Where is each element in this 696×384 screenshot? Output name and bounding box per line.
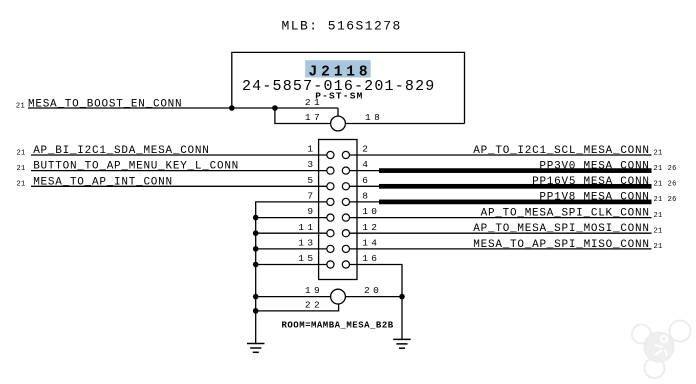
svg-text:21: 21 (654, 212, 663, 220)
svg-text:11: 11 (298, 222, 316, 233)
svg-text:8: 8 (362, 191, 371, 202)
wire AP_TO_I2C1_SCL_MESA_CONN pin 2 (350, 154, 652, 156)
svg-text:26: 26 (668, 181, 677, 189)
power bus PP3V0_MESA_CONN (thick) (379, 168, 652, 173)
pin 1 circle (327, 151, 334, 158)
junction bus pin 11 (253, 230, 259, 236)
svg-text:17: 17 (305, 112, 323, 123)
pin 5 circle (327, 183, 334, 190)
svg-text:16: 16 (362, 253, 380, 264)
wire right ground drop (401, 297, 403, 340)
svg-text:ROOM=MAMBA_MESA_B2B: ROOM=MAMBA_MESA_B2B (282, 321, 394, 331)
svg-text:14: 14 (362, 238, 380, 249)
svg-text:MLB: 516S1278: MLB: 516S1278 (282, 19, 402, 34)
wire MESA_TO_AP_SPI_MISO_CONN (350, 248, 652, 250)
pin 4 circle (342, 167, 349, 174)
wire branch down to pin 17 (275, 108, 331, 124)
wire pin 18 (345, 123, 464, 125)
wire pin 15 to bus (256, 264, 327, 266)
svg-text:22: 22 (305, 299, 323, 310)
svg-text:6: 6 (362, 175, 371, 186)
pin 2 circle (342, 151, 349, 158)
wire MESA_TO_BOOST_EN_CONN to pin 21 (28, 107, 338, 109)
junction bus pin 13 (253, 246, 259, 252)
power bus PP16V5_MESA_CONN (thick) (379, 184, 652, 189)
svg-text:13: 13 (298, 238, 316, 249)
svg-text:21: 21 (17, 149, 26, 157)
svg-text:12: 12 (362, 222, 380, 233)
svg-text:21: 21 (654, 165, 663, 173)
junction bus pin 15 (253, 262, 259, 268)
svg-text:1: 1 (307, 144, 316, 155)
junction at box left edge (229, 105, 235, 111)
wire pin 13 to bus (256, 248, 327, 250)
pin 10 circle (342, 214, 349, 221)
refdes J2118 (highlighted) (305, 60, 371, 80)
svg-text:21: 21 (654, 196, 663, 204)
pin 3 circle (327, 167, 334, 174)
wire pin 21 drop (337, 108, 339, 116)
watermark logo (632, 321, 691, 379)
pin 7 circle (327, 198, 334, 205)
svg-text:18: 18 (365, 112, 383, 123)
svg-text:9: 9 (307, 206, 316, 217)
pin 9 circle (327, 214, 334, 221)
wire pin 11 to bus (256, 232, 327, 234)
pin 13 circle (327, 245, 334, 252)
wire PP1V8_MESA_CONN (thin lead) (350, 201, 381, 203)
power bus PP1V8_MESA_CONN (thick) (379, 200, 652, 205)
svg-text:21: 21 (17, 181, 26, 189)
connector J2118 body (319, 140, 357, 280)
svg-text:21: 21 (305, 97, 323, 108)
pin 6 circle (342, 183, 349, 190)
pin 16 circle (342, 261, 349, 268)
svg-text:15: 15 (298, 253, 316, 264)
wire pin 20 (345, 296, 402, 298)
svg-text:21: 21 (654, 181, 663, 189)
pin 11 circle (327, 230, 334, 237)
svg-text:3: 3 (307, 159, 316, 170)
svg-text:5: 5 (307, 175, 316, 186)
wire pin 22 (256, 304, 339, 311)
svg-text:19: 19 (305, 285, 323, 296)
wire AP_TO_MESA_SPI_MOSI_CONN (350, 232, 652, 234)
wire MESA_TO_AP_INT_CONN (31, 185, 327, 187)
wire pin 19 (256, 296, 331, 298)
pin 19/20/22 circle (331, 289, 346, 304)
wire pin 9 to bus (256, 217, 327, 219)
svg-text:21: 21 (654, 243, 663, 251)
wire BUTTON_TO_AP_MENU_KEY_L_CONN (31, 170, 327, 172)
junction bus pin 19 (253, 294, 259, 300)
wire pin 16 to right ground (350, 265, 403, 297)
svg-text:21: 21 (654, 228, 663, 236)
junction pin17 branch (272, 105, 278, 111)
svg-text:7: 7 (307, 191, 316, 202)
junction bus pin 22 (253, 308, 259, 314)
ground left (247, 344, 265, 353)
junction right ground (399, 294, 405, 300)
pin 8 circle (342, 198, 349, 205)
wire AP_BI_I2C1_SDA_MESA_CONN (31, 154, 327, 156)
pin 17/18/21 circle (331, 116, 346, 131)
op connector J2118 outline (232, 52, 465, 123)
pin 14 circle (342, 245, 349, 252)
svg-text:20: 20 (364, 285, 382, 296)
pin 15 circle (327, 261, 334, 268)
wire AP_TO_MESA_SPI_CLK_CONN (350, 217, 652, 219)
svg-text:10: 10 (362, 206, 380, 217)
ground right (393, 339, 411, 348)
svg-text:26: 26 (668, 165, 677, 173)
wire pin 7 to ground bus (256, 202, 327, 344)
svg-text:21: 21 (17, 165, 26, 173)
wire PP16V5_MESA_CONN (thin lead) (350, 185, 381, 187)
svg-text:21: 21 (16, 102, 25, 110)
svg-text:26: 26 (668, 196, 677, 204)
svg-text:4: 4 (362, 159, 371, 170)
svg-text:21: 21 (654, 149, 663, 157)
junction bus pin 9 (253, 215, 259, 221)
svg-text:2: 2 (362, 144, 371, 155)
pin 12 circle (342, 230, 349, 237)
wire PP3V0_MESA_CONN (thin lead) (350, 170, 381, 172)
